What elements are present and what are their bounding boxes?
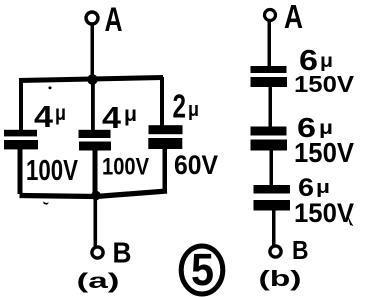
capacitor C2 4μ 100V (middle) <box>79 130 112 151</box>
value label C6 6μ <box>298 174 330 202</box>
value label C5 6μ <box>297 112 333 143</box>
junction top bus <box>87 74 98 85</box>
node A terminal (circuit b) <box>265 10 276 21</box>
wire A to top bus <box>91 25 95 79</box>
wire right branch top <box>160 77 164 127</box>
value label C4 6μ <box>299 45 333 77</box>
wire C4 to C5 <box>269 87 273 127</box>
bottom bus wire <box>20 191 168 197</box>
junction bottom bus <box>91 191 101 201</box>
svg-text:100V: 100V <box>102 154 149 181</box>
capacitor C4 6μ 150V (top) <box>251 66 288 87</box>
svg-text:μ: μ <box>124 103 137 126</box>
svg-text:μ: μ <box>320 51 333 72</box>
scan tick below bottom bus <box>43 202 49 205</box>
top bus wire <box>19 78 163 81</box>
scan speck near left 4μ <box>48 86 51 89</box>
figure number 5 (circled) <box>181 244 223 295</box>
svg-text:μ: μ <box>319 118 333 139</box>
wire left branch top <box>19 78 23 131</box>
wire left branch bottom <box>18 149 23 194</box>
svg-text:60V: 60V <box>174 150 218 180</box>
svg-text:150V: 150V <box>294 137 354 168</box>
wire A to C4 <box>268 21 272 67</box>
svg-text:4: 4 <box>102 100 122 135</box>
svg-text:2: 2 <box>173 88 187 125</box>
svg-text:μ: μ <box>188 99 199 121</box>
svg-text:μ: μ <box>55 102 66 125</box>
value label C2 4μ <box>102 100 137 135</box>
value label C1 4μ <box>34 99 66 134</box>
wire bottom junction to B <box>94 197 98 247</box>
svg-text:150V: 150V <box>294 198 354 228</box>
wire right branch bottom <box>163 149 168 192</box>
svg-text:100V: 100V <box>26 155 78 187</box>
wire C5 to C6 <box>270 150 274 186</box>
svg-text:μ: μ <box>316 177 330 197</box>
wire middle branch top <box>91 80 95 131</box>
capacitor C1 4μ 100V (left) <box>4 130 38 150</box>
node B terminal (circuit a) <box>92 247 103 258</box>
capacitor C3 2μ 60V (right) <box>148 125 182 149</box>
node B terminal (circuit b) <box>270 246 281 257</box>
svg-text:B: B <box>113 238 132 270</box>
value label C3 2μ <box>173 88 200 125</box>
wire C6 to B <box>272 210 276 246</box>
svg-text:150V: 150V <box>294 71 355 97</box>
capacitor C6 6μ 150V (bottom) <box>254 185 291 211</box>
svg-text:(a): (a) <box>77 270 120 293</box>
svg-text:B: B <box>292 235 309 265</box>
tail of V in third 150V label <box>348 215 354 226</box>
node A terminal (circuit a) <box>86 12 98 24</box>
svg-text:4: 4 <box>34 99 54 134</box>
capacitor C5 6μ 150V (middle) <box>251 127 288 151</box>
svg-text:(b): (b) <box>259 266 302 291</box>
svg-text:A: A <box>105 1 123 39</box>
wire middle branch bottom <box>93 150 98 195</box>
svg-text:A: A <box>284 0 303 35</box>
svg-text:5: 5 <box>191 244 214 295</box>
